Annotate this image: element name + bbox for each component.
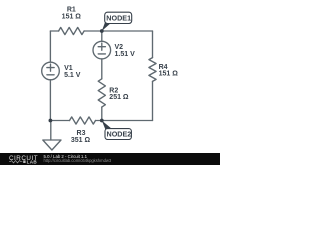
resistor R3 xyxy=(70,117,96,124)
wire right rail lower xyxy=(152,81,154,120)
voltage source V2 xyxy=(93,41,111,59)
svg-text:5.1 V: 5.1 V xyxy=(64,72,81,79)
voltage source V1 xyxy=(42,62,60,80)
svg-text:http://circuitlab.com/c64kpgks: http://circuitlab.com/c64kpgkshmdw3 xyxy=(44,158,112,163)
svg-text:R3: R3 xyxy=(77,130,86,137)
resistor R1 xyxy=(59,27,85,34)
resistor R4 xyxy=(149,58,156,82)
ground xyxy=(43,121,61,151)
wire mid branch bottom xyxy=(101,107,103,120)
wire left rail upper xyxy=(49,31,51,62)
svg-text:1.51 V: 1.51 V xyxy=(115,51,136,58)
junction node NODE2 xyxy=(100,119,104,123)
svg-text:151 Ω: 151 Ω xyxy=(159,71,179,78)
wire bottom left segment xyxy=(50,120,69,122)
node label NODE1 xyxy=(102,12,132,31)
junction node bottom-left xyxy=(49,119,53,123)
svg-text:351 Ω: 351 Ω xyxy=(71,137,91,144)
wire top-left horizontal segment xyxy=(50,30,58,32)
wire top-right of R1 to corner xyxy=(84,30,152,32)
svg-text:NODE2: NODE2 xyxy=(107,130,132,139)
junction node NODE1 xyxy=(100,29,104,33)
svg-text:LAB: LAB xyxy=(27,159,38,164)
wire bottom right segment xyxy=(96,120,153,122)
wire mid branch top xyxy=(101,31,103,41)
footer logo zigzag xyxy=(9,161,22,163)
node label NODE2 xyxy=(102,121,132,140)
wire left rail lower xyxy=(49,80,51,121)
svg-text:NODE1: NODE1 xyxy=(106,14,131,23)
footer logo square xyxy=(23,160,25,163)
footer bar xyxy=(0,153,220,165)
wire mid branch between V2 and R2 xyxy=(101,59,103,79)
svg-text:251 Ω: 251 Ω xyxy=(109,94,129,101)
resistor R2 xyxy=(98,79,105,107)
svg-text:R1: R1 xyxy=(67,7,76,14)
svg-text:151 Ω: 151 Ω xyxy=(62,14,82,21)
wire right rail upper xyxy=(152,31,154,58)
